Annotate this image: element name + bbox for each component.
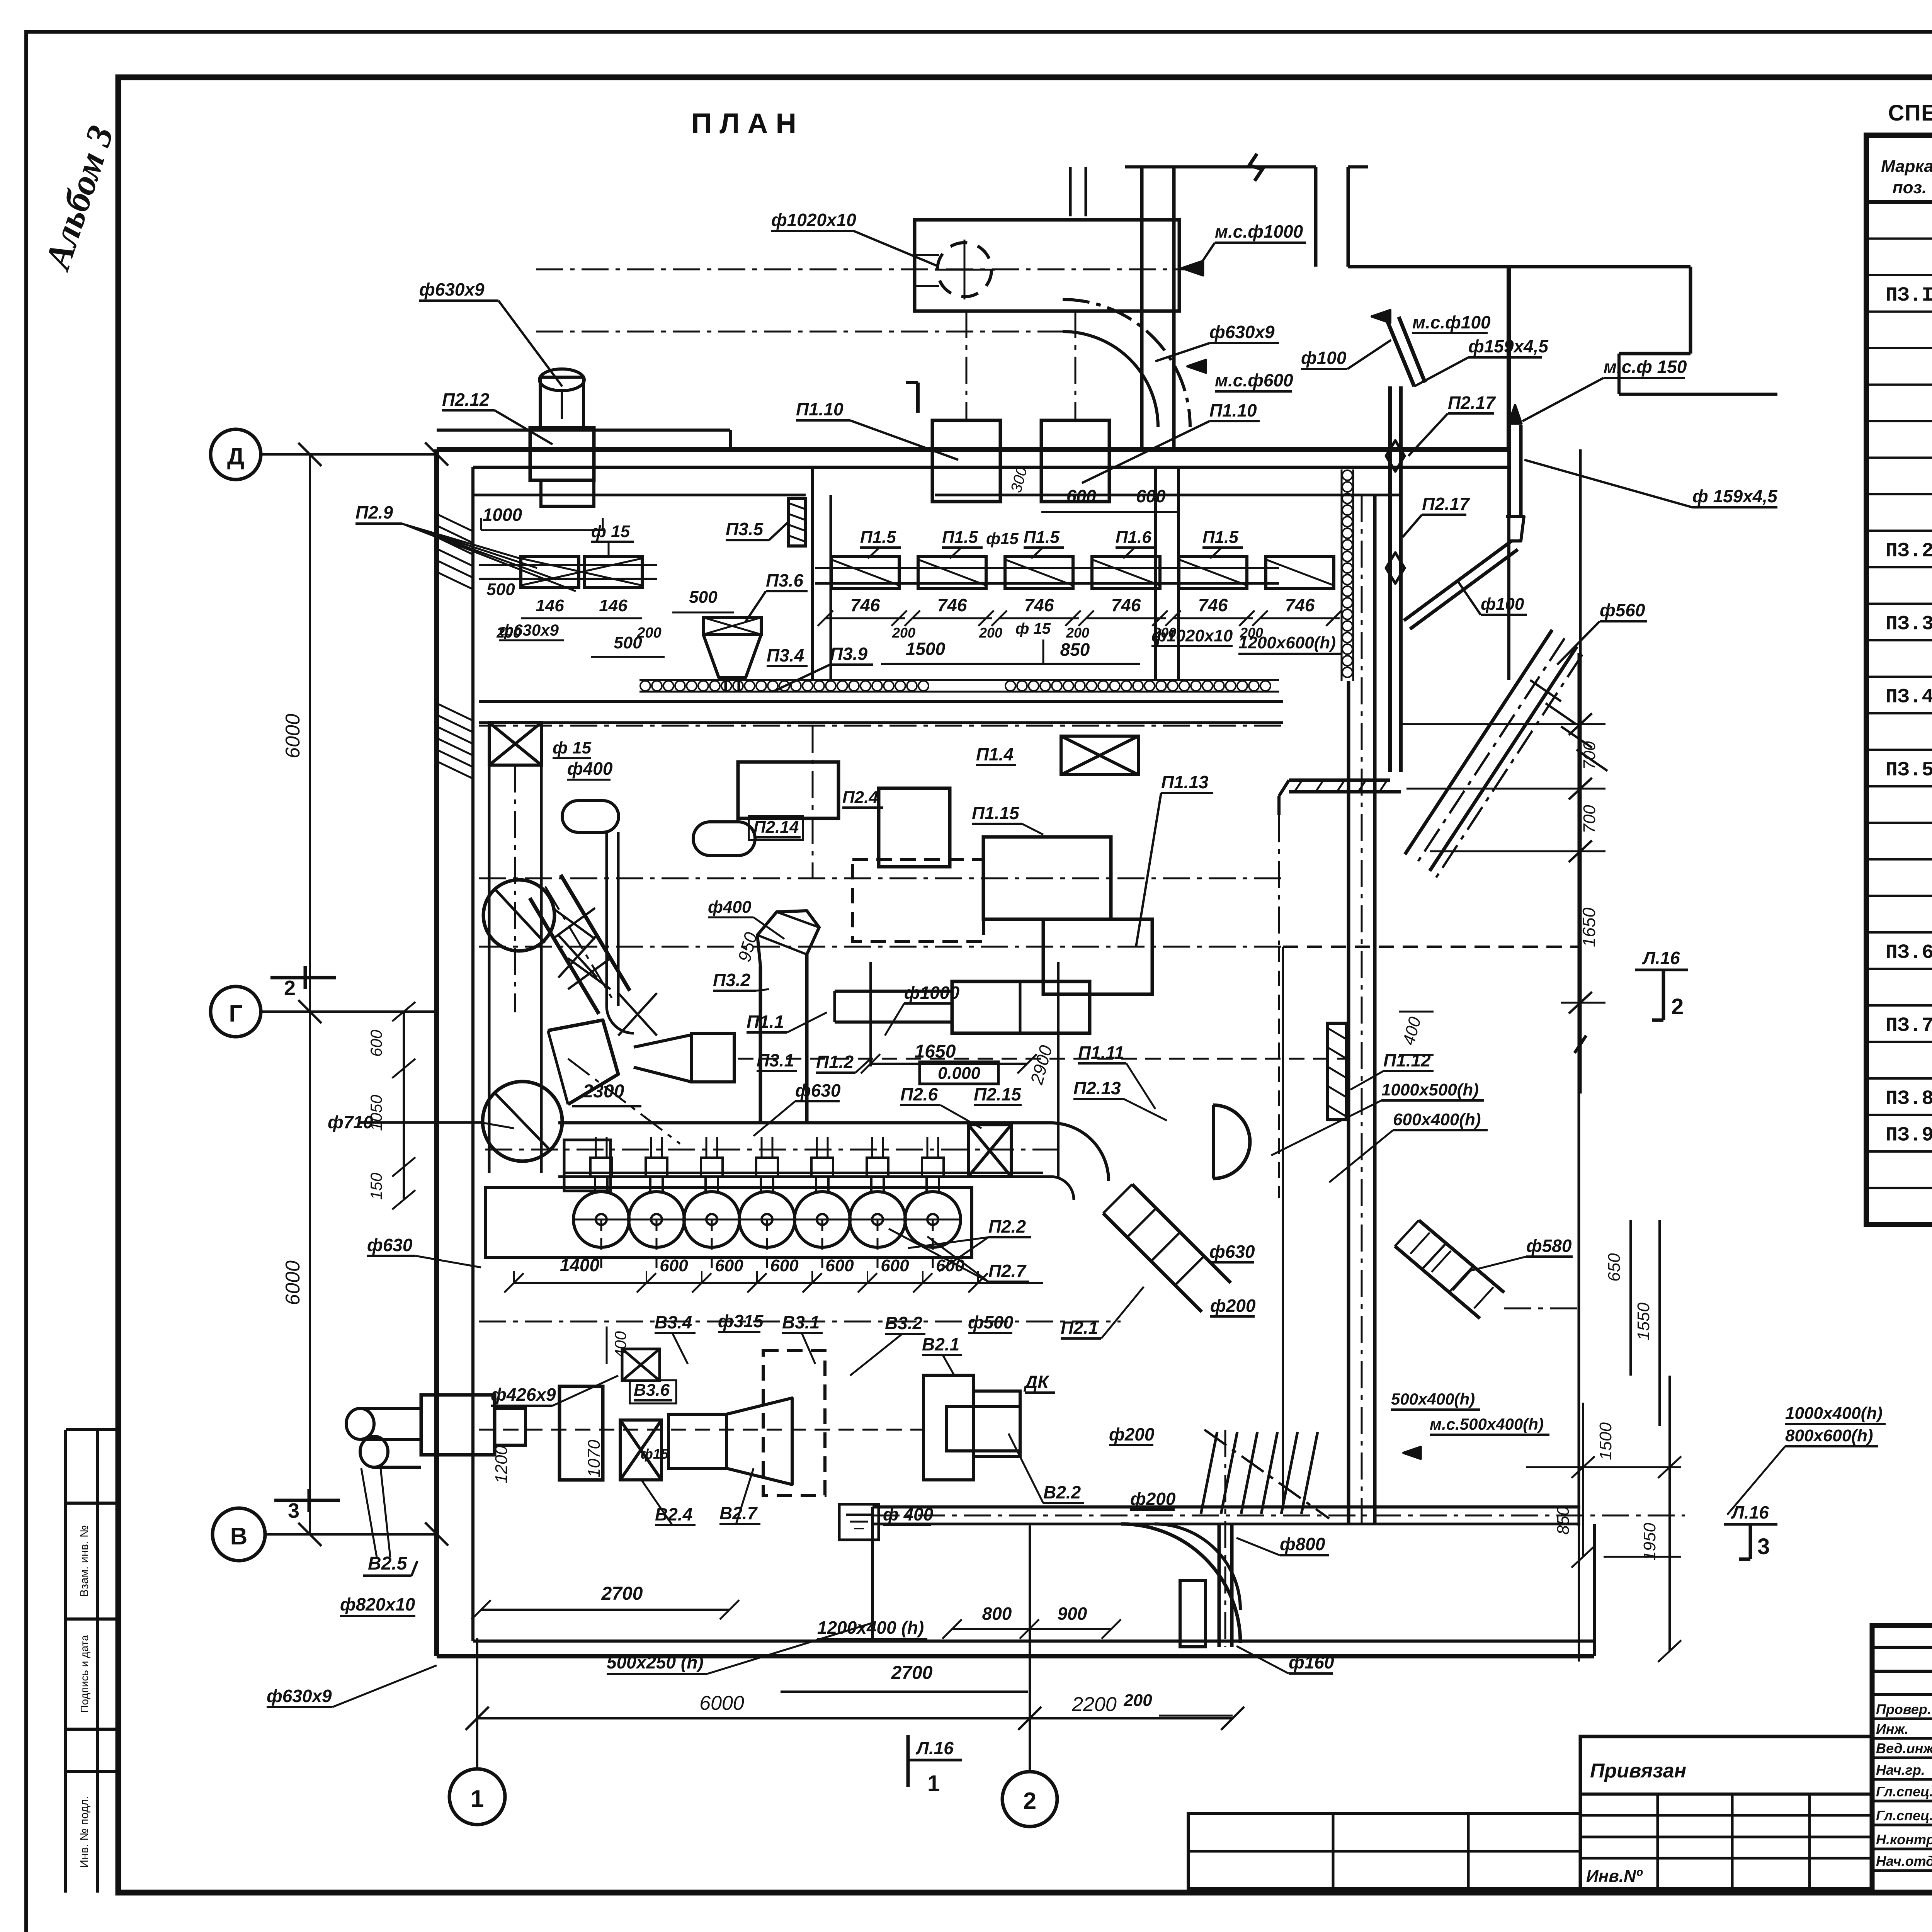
- svg-text:В3.2: В3.2: [885, 1313, 923, 1333]
- svg-text:ф 15: ф 15: [553, 738, 592, 757]
- top channel verticals: [1314, 167, 1318, 267]
- П3.1 cone and box: [634, 1035, 692, 1082]
- arrow м.с.ф600: [1187, 360, 1206, 373]
- upper duct verticals: [1140, 167, 1144, 449]
- fan centerline cross: [935, 269, 995, 271]
- svg-text:П1.5: П1.5: [942, 528, 978, 547]
- мс ф150 pipe: [1508, 425, 1511, 517]
- left dimension line 6000+6000: [309, 454, 311, 1534]
- svg-text:П1.5: П1.5: [1024, 528, 1060, 547]
- diffuser row right duct lines: [815, 567, 1279, 569]
- svg-text:ф100: ф100: [1301, 348, 1347, 368]
- break symbol top line: [1249, 154, 1262, 181]
- label ф710 lower leader: [359, 1121, 481, 1124]
- svg-text:650: 650: [1605, 1253, 1624, 1282]
- svg-text:ПЗ.2: ПЗ.2: [1886, 540, 1932, 563]
- svg-text:П2.6: П2.6: [900, 1084, 938, 1104]
- svg-text:6000: 6000: [699, 1692, 744, 1714]
- pipe flange box: [421, 1395, 495, 1455]
- svg-text:0.000: 0.000: [938, 1064, 981, 1083]
- svg-text:2: 2: [284, 976, 296, 1000]
- axis circle 2: [1002, 1772, 1057, 1827]
- svg-text:1: 1: [471, 1786, 484, 1812]
- duct lines to П2.9 boxes: [479, 564, 521, 566]
- right wall line x3905 lower: [1507, 449, 1510, 680]
- title block signature row lines: [1872, 1718, 1932, 1720]
- svg-text:П2.14: П2.14: [753, 818, 799, 837]
- dashdot centerline м.с.ф1000: [536, 269, 1192, 270]
- svg-text:3: 3: [1757, 1534, 1770, 1559]
- svg-text:П2.17: П2.17: [1422, 494, 1470, 514]
- dim chain 600 1050 150 left: [403, 1012, 405, 1200]
- svg-text:700: 700: [1580, 805, 1599, 833]
- break symbol on x4090: [1575, 1036, 1586, 1053]
- svg-text:746: 746: [1198, 595, 1228, 615]
- fan dashed circle: [937, 243, 992, 297]
- svg-text:Г: Г: [229, 1000, 242, 1027]
- svg-text:ПЗ.7: ПЗ.7: [1886, 1014, 1932, 1037]
- big В2.4 xbox: [620, 1420, 662, 1480]
- П2.1 diagonal hatched duct: [1132, 1184, 1231, 1283]
- svg-text:ф400: ф400: [567, 759, 613, 779]
- leader lines B3 labels: [672, 1333, 688, 1364]
- svg-text:П2.9: П2.9: [355, 502, 393, 522]
- svg-text:500: 500: [614, 633, 642, 652]
- svg-text:600: 600: [1136, 486, 1166, 506]
- svg-text:Инв. № подл.: Инв. № подл.: [78, 1796, 91, 1868]
- svg-text:П1.1: П1.1: [747, 1012, 784, 1032]
- left wall hatch upper: [437, 514, 473, 531]
- svg-text:ф800: ф800: [1280, 1534, 1325, 1554]
- svg-text:Нач.отд.: Нач.отд.: [1876, 1853, 1932, 1869]
- svg-text:П2.7: П2.7: [988, 1261, 1027, 1281]
- fans row rect: [485, 1187, 972, 1257]
- room band centerline: [479, 725, 1283, 727]
- dashed box: [852, 859, 984, 942]
- corridor arc duct: [1121, 1524, 1240, 1643]
- Д axis wall tick: [425, 442, 448, 466]
- svg-text:Л.16: Л.16: [1731, 1502, 1769, 1522]
- svg-text:200: 200: [892, 625, 915, 641]
- П2.17 pipe lower horizontal segment: [1289, 779, 1390, 782]
- svg-text:м.с.ф1000: м.с.ф1000: [1215, 221, 1303, 241]
- corridor walls bottom right: [872, 1505, 1580, 1509]
- upper duct box: [915, 220, 1179, 311]
- elbow diamond to lower circle: [548, 1020, 618, 1104]
- svg-text:600: 600: [1066, 486, 1096, 506]
- дк dash line: [1283, 946, 1579, 948]
- svg-text:800: 800: [982, 1604, 1012, 1624]
- duct П2.12 stack: [530, 428, 594, 480]
- П2.2 xbox: [968, 1125, 1011, 1177]
- svg-text:ф1020х10: ф1020х10: [771, 210, 856, 230]
- big box П1.13 area: [983, 837, 1111, 919]
- svg-text:6000: 6000: [282, 714, 304, 759]
- В2.1 boxes: [923, 1375, 974, 1480]
- horizontal duct to П1.2: [835, 990, 952, 993]
- wall opening П1.10 left: [932, 420, 1000, 502]
- svg-text:П1.5: П1.5: [860, 528, 896, 547]
- diagonal lower dashdot: [568, 1059, 680, 1144]
- svg-text:ПЗ.I: ПЗ.I: [1886, 284, 1932, 307]
- svg-text:ф630: ф630: [1209, 1242, 1255, 1262]
- heater funnel КСК: [703, 617, 761, 634]
- svg-text:В: В: [230, 1523, 248, 1550]
- svg-text:146: 146: [599, 596, 628, 615]
- svg-text:П1.4: П1.4: [976, 744, 1014, 764]
- svg-text:ф630х9: ф630х9: [419, 279, 485, 299]
- right duct verticals: [1347, 681, 1350, 1524]
- svg-text:ф710: ф710: [328, 1112, 373, 1132]
- small rect grid above fans band: [564, 1140, 611, 1191]
- upper verticals х2770: [1069, 167, 1072, 216]
- svg-text:600: 600: [715, 1256, 743, 1275]
- svg-text:П3.9: П3.9: [830, 644, 867, 664]
- svg-text:6000: 6000: [282, 1260, 304, 1305]
- upper elbow arcs: [1063, 332, 1158, 427]
- vertical partition pair: [830, 495, 832, 680]
- svg-text:Марка,: Марка,: [1881, 157, 1932, 176]
- diffuser row right boxes: [831, 556, 899, 588]
- П2.13 half circle: [1213, 1105, 1250, 1179]
- right vertical dim line 700 700 1650: [1579, 449, 1582, 1094]
- dashdot centerline 858: [536, 331, 1063, 333]
- stairs hatch in corridor: [1201, 1432, 1217, 1514]
- svg-text:500: 500: [486, 580, 515, 599]
- П2.12 lower box: [541, 480, 594, 506]
- corridor left vertical: [871, 1507, 874, 1641]
- svg-text:П2.13: П2.13: [1073, 1078, 1121, 1098]
- svg-text:600: 600: [770, 1256, 799, 1275]
- lower right diagonal duct ф580: [1419, 1220, 1504, 1293]
- ladder hatch lower-right diagonal: [1410, 1233, 1430, 1254]
- svg-text:П1.12: П1.12: [1383, 1050, 1431, 1070]
- diagonal duct 2300: [561, 875, 630, 991]
- svg-text:1550: 1550: [1634, 1303, 1653, 1340]
- В3.6 xbox: [622, 1349, 660, 1381]
- bottom dimension line 6000 2200: [477, 1717, 1233, 1719]
- upper right short wall: [1617, 354, 1621, 394]
- svg-text:П1.10: П1.10: [1209, 400, 1257, 420]
- svg-text:1500: 1500: [906, 639, 946, 659]
- svg-text:В2.2: В2.2: [1043, 1482, 1081, 1502]
- axis circle В: [213, 1508, 265, 1561]
- stadium fitting b П2.14: [693, 822, 755, 855]
- svg-text:1400: 1400: [560, 1255, 600, 1275]
- extension lines right lower: [1526, 1466, 1681, 1468]
- svg-text:1000: 1000: [483, 505, 522, 525]
- В2.7 fan unit: [668, 1414, 726, 1468]
- spec table header row line: [1866, 200, 1932, 204]
- room right area vertical x3320: [1282, 947, 1284, 1507]
- svg-text:ф630х9: ф630х9: [499, 621, 559, 639]
- svg-text:2: 2: [1671, 994, 1684, 1019]
- svg-text:2200: 2200: [1071, 1693, 1117, 1716]
- band right arc to П2.1: [1051, 1123, 1109, 1181]
- svg-text:В3.6: В3.6: [634, 1381, 670, 1400]
- svg-text:746: 746: [1024, 595, 1054, 615]
- right dim chain lower: [1582, 1403, 1584, 1557]
- svg-text:200: 200: [1123, 1691, 1152, 1710]
- section flag 2 at Г: [270, 976, 336, 980]
- fans supply duct band: [558, 1121, 1051, 1124]
- slanted pipe ф159: [1387, 321, 1414, 386]
- axis line В: [265, 1533, 437, 1536]
- big circle ф710 lower: [483, 1082, 562, 1161]
- В axis wall tick: [425, 1522, 448, 1546]
- svg-text:ф630х9: ф630х9: [1209, 322, 1275, 342]
- svg-text:400: 400: [1399, 1015, 1425, 1047]
- svg-text:П1.15: П1.15: [972, 803, 1020, 823]
- svg-text:П1.13: П1.13: [1161, 772, 1209, 792]
- top right outline: [1348, 265, 1690, 269]
- svg-text:ф200: ф200: [1109, 1424, 1155, 1444]
- water symbol box: [839, 1504, 879, 1540]
- svg-text:ф400: ф400: [708, 898, 752, 917]
- vertical channel right of П3.6: [1154, 467, 1157, 680]
- svg-text:ф15: ф15: [641, 1446, 669, 1462]
- svg-text:2: 2: [1023, 1788, 1036, 1815]
- arrow м.с.ф100: [1372, 310, 1390, 323]
- thin channel from stadium: [605, 832, 608, 1006]
- svg-text:746: 746: [1285, 595, 1315, 615]
- left inner verticals: [488, 765, 491, 1005]
- hatch block П1.12: [1327, 1023, 1347, 1120]
- svg-text:В2.1: В2.1: [922, 1334, 959, 1354]
- title block top small rows: [1872, 1646, 1932, 1649]
- pipe continuation dash down: [1278, 815, 1280, 947]
- svg-text:600х400(h): 600х400(h): [1393, 1110, 1481, 1129]
- diagonal duct ф560: [1430, 646, 1577, 871]
- dashdot to right wall: [1504, 1308, 1579, 1310]
- svg-text:ПЗ.4: ПЗ.4: [1886, 686, 1932, 709]
- arrow м.с.ф1000: [1182, 261, 1203, 275]
- svg-text:П2.12: П2.12: [442, 389, 490, 410]
- svg-text:П3.4: П3.4: [767, 645, 804, 665]
- svg-text:м.с.ф100: м.с.ф100: [1412, 312, 1491, 332]
- svg-text:ДК: ДК: [1023, 1372, 1049, 1392]
- upper box inner lines: [915, 254, 939, 256]
- top edge line: [1125, 165, 1316, 168]
- vertical partition at П3.5: [811, 467, 814, 680]
- small tick marks top left dims: [480, 518, 482, 530]
- svg-text:ПЗ.3: ПЗ.3: [1886, 613, 1932, 636]
- wall opening П1.10 right: [1041, 420, 1109, 502]
- svg-text:1200х600(h): 1200х600(h): [1238, 633, 1336, 652]
- room lower horizontal dashdot: [479, 1321, 1121, 1323]
- svg-text:Нач.гр.: Нач.гр.: [1876, 1762, 1925, 1778]
- room top inner line: [473, 494, 806, 497]
- svg-text:Привязан: Привязан: [1590, 1760, 1686, 1782]
- svg-text:2700: 2700: [601, 1583, 643, 1604]
- dim 800 900: [952, 1628, 1111, 1630]
- svg-text:П3.5: П3.5: [726, 519, 764, 539]
- svg-text:300: 300: [1008, 465, 1031, 495]
- room centerline horizontals: [479, 878, 1283, 879]
- dim 650 1550 right upper: [1629, 1220, 1632, 1376]
- П1.10 riser dashdots: [966, 311, 968, 420]
- svg-text:Л.16: Л.16: [915, 1738, 954, 1758]
- svg-text:Инв.Nº: Инв.Nº: [1586, 1867, 1643, 1886]
- П1.4 xbox: [1061, 736, 1138, 775]
- svg-text:Вед.инж.: Вед.инж.: [1876, 1740, 1932, 1756]
- П3.2 top elbow facets: [757, 911, 819, 966]
- svg-text:800х600(h): 800х600(h): [1785, 1426, 1873, 1445]
- vertical duct П3.2 shaft: [759, 966, 762, 1123]
- left wall hatch mid: [437, 703, 473, 721]
- svg-text:ф630х9: ф630х9: [267, 1686, 332, 1706]
- bubble wall small right: [1179, 679, 1279, 681]
- room left wall: [434, 449, 439, 1656]
- svg-text:1950: 1950: [1640, 1523, 1659, 1561]
- svg-text:ф426х9: ф426х9: [491, 1384, 556, 1405]
- insulated wall bubbles: [640, 681, 650, 691]
- svg-text:П3.1: П3.1: [757, 1050, 794, 1070]
- svg-text:П2.15: П2.15: [974, 1084, 1022, 1104]
- svg-text:850: 850: [1060, 639, 1090, 660]
- svg-text:ПЗ.8: ПЗ.8: [1886, 1087, 1932, 1110]
- room top wall: [437, 447, 1509, 452]
- svg-text:ф630: ф630: [795, 1080, 841, 1100]
- big circle ф710 upper: [483, 880, 554, 951]
- svg-text:600: 600: [881, 1256, 909, 1275]
- svg-text:150: 150: [367, 1172, 385, 1200]
- svg-text:П2.17: П2.17: [1448, 393, 1496, 413]
- svg-text:2900: 2900: [1026, 1043, 1056, 1087]
- extra dims right of corridor: [1578, 1524, 1580, 1662]
- pipe elbow down: [1279, 780, 1289, 796]
- pipe node diamonds: [1386, 440, 1405, 471]
- svg-text:ПЗ.6: ПЗ.6: [1886, 941, 1932, 964]
- svg-text:ф159х4,5: ф159х4,5: [1468, 336, 1549, 356]
- ahu box 2: [879, 788, 950, 867]
- diffuser row left duct lines: [491, 564, 657, 566]
- П2.4 bottom box: [560, 1386, 603, 1480]
- svg-text:850: 850: [1554, 1506, 1573, 1535]
- room bottom wall: [437, 1654, 1594, 1658]
- svg-text:П3.6: П3.6: [766, 570, 803, 590]
- right boundary x4086: [1578, 653, 1580, 1526]
- svg-text:м.с.500х400(h): м.с.500х400(h): [1430, 1415, 1544, 1433]
- axis line Д: [261, 453, 437, 456]
- diffuser row left boxes: [521, 556, 579, 587]
- svg-text:ПЛАН: ПЛАН: [691, 107, 804, 139]
- svg-text:П1.10: П1.10: [796, 399, 844, 419]
- svg-text:ф 15: ф 15: [1015, 620, 1051, 637]
- svg-text:ПЗ.5: ПЗ.5: [1886, 759, 1932, 782]
- fans row: [573, 1192, 629, 1247]
- axis circle Г: [211, 986, 261, 1037]
- svg-text:ф820х10: ф820х10: [340, 1594, 415, 1614]
- svg-text:600: 600: [825, 1256, 854, 1275]
- svg-text:600: 600: [660, 1256, 688, 1275]
- duct stems dashdot verticals: [812, 726, 814, 878]
- svg-text:СПЕЦИФИКАЦИЯ ОТОПИТЕЛЬНО – ВЕ: СПЕЦИФИКАЦИЯ ОТОПИТЕЛЬНО – ВЕНТИЛЯЦИОННО…: [1888, 100, 1932, 126]
- svg-text:2300: 2300: [583, 1081, 624, 1102]
- мс ф150 funnel: [1506, 517, 1524, 541]
- svg-text:1: 1: [927, 1771, 940, 1796]
- svg-text:500х400(h): 500х400(h): [1391, 1390, 1475, 1408]
- svg-text:700: 700: [1580, 741, 1599, 770]
- corridor channel stubs: [1180, 1580, 1206, 1647]
- svg-text:746: 746: [937, 595, 967, 615]
- svg-text:600: 600: [367, 1029, 385, 1057]
- svg-text:П1.6: П1.6: [1116, 528, 1151, 547]
- left inner verticals extension: [488, 1005, 491, 1173]
- svg-text:ф200: ф200: [1210, 1296, 1256, 1316]
- svg-text:Взам. инв. №: Взам. инв. №: [78, 1525, 91, 1597]
- box lower right: [1043, 919, 1152, 994]
- svg-text:ф 15: ф 15: [591, 522, 630, 541]
- section flag mark left: [916, 383, 920, 413]
- ahu box П1.1: [738, 762, 838, 818]
- stadium fitting a: [562, 801, 619, 832]
- svg-text:ф 159х4,5: ф 159х4,5: [1692, 486, 1778, 506]
- svg-text:3: 3: [288, 1499, 299, 1522]
- room lower horizontal dashdot 2: [479, 1429, 923, 1431]
- svg-text:Подпись и дата: Подпись и дата: [78, 1635, 90, 1713]
- svg-text:1500: 1500: [1596, 1422, 1615, 1460]
- top wall extra outer line: [437, 429, 730, 432]
- П2.5 xbox left wall: [489, 723, 541, 765]
- dim line bottom 1400-600 ticks verticals: [513, 1271, 515, 1283]
- spec table row lines: [1866, 238, 1932, 240]
- svg-text:П2.4: П2.4: [842, 788, 878, 807]
- svg-text:200: 200: [979, 625, 1002, 641]
- spec table frame: [1866, 135, 1932, 1225]
- svg-text:Н.контр.: Н.контр.: [1876, 1832, 1932, 1847]
- привязан table: [1580, 1736, 1872, 1889]
- axis circle 1: [449, 1769, 505, 1825]
- svg-text:1000х500(h): 1000х500(h): [1381, 1080, 1479, 1099]
- svg-text:746: 746: [850, 595, 880, 615]
- svg-text:Инж.: Инж.: [1876, 1721, 1908, 1737]
- axis 1 extension line: [476, 1638, 478, 1769]
- svg-text:ф630: ф630: [367, 1235, 413, 1255]
- pipe B diagonal to pipe A: [1404, 541, 1512, 621]
- fan connection stubs: [590, 1158, 612, 1177]
- dashed tall box: [763, 1350, 825, 1495]
- svg-text:В2.5: В2.5: [368, 1553, 408, 1574]
- svg-text:Альбом 3: Альбом 3: [36, 121, 121, 276]
- svg-text:500: 500: [689, 588, 718, 607]
- svg-text:Провер.: Провер.: [1876, 1701, 1931, 1717]
- svg-text:ф1020х10: ф1020х10: [1151, 626, 1233, 645]
- svg-text:1000х400(h): 1000х400(h): [1785, 1404, 1883, 1423]
- leader pipes to В2.5: [361, 1468, 377, 1557]
- axis2 dashdot in corridor: [1029, 1524, 1031, 1641]
- section flag 3 at В: [274, 1499, 340, 1502]
- room duct band under wall: [479, 700, 1283, 703]
- axis circle Д: [211, 429, 261, 480]
- П2.12 inner vertical: [561, 392, 563, 428]
- svg-text:ф160: ф160: [1289, 1652, 1334, 1672]
- svg-text:746: 746: [1111, 595, 1141, 615]
- equipment rect П1.11: [952, 981, 1090, 1033]
- axis 2 extension line: [1029, 1526, 1031, 1772]
- long dashdot x3310 lower: [1278, 947, 1280, 1198]
- svg-text:1070: 1070: [585, 1440, 604, 1478]
- svg-text:ф580: ф580: [1526, 1236, 1572, 1256]
- insulated wall vertical bubbles: [1341, 469, 1343, 681]
- corridor channel verticals: [1218, 1524, 1221, 1647]
- svg-text:2700: 2700: [891, 1663, 933, 1683]
- extra braces diagonal duct: [558, 935, 597, 978]
- svg-text:1650: 1650: [1579, 907, 1599, 947]
- svg-text:ПЗ.9: ПЗ.9: [1886, 1124, 1932, 1147]
- svg-text:146: 146: [536, 596, 564, 615]
- hatched valve П3.5: [789, 498, 806, 546]
